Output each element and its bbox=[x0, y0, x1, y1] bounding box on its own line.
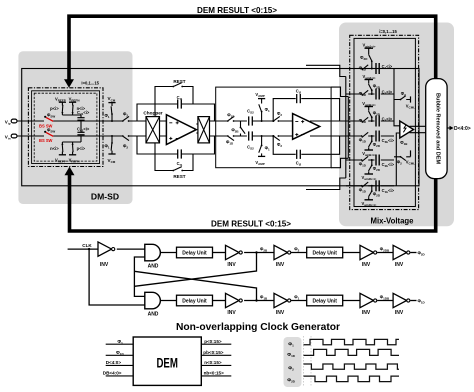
switch phi2d row bbox=[369, 135, 381, 148]
svg-text:DEM RESULT <0:15>: DEM RESULT <0:15> bbox=[197, 6, 277, 15]
wire mix row y=136 bbox=[346, 135, 394, 137]
svg-text:Mix-Voltage: Mix-Voltage bbox=[371, 216, 414, 226]
svg-text:p<0:15>: p<0:15> bbox=[204, 339, 222, 344]
wire stage2 box bbox=[216, 87, 331, 168]
terminal VAMP top bbox=[255, 92, 265, 104]
switch phi2d row bbox=[369, 159, 381, 172]
switch phi2b shorting bbox=[231, 121, 245, 136]
wire Delay1 to INV2 bbox=[213, 252, 226, 254]
svg-text:n<i>: n<i> bbox=[50, 146, 59, 151]
svg-text:BS SW: BS SW bbox=[39, 138, 53, 143]
DM-SD label bbox=[91, 192, 119, 202]
wire Delay2 to INV4 bbox=[343, 252, 360, 254]
wire Delay1b to INV2b bbox=[213, 300, 226, 302]
switch phi1d row bbox=[359, 156, 369, 167]
DM-SD inner dashed box bbox=[32, 91, 100, 164]
switch phi2 to VCML bottom tap bbox=[394, 150, 415, 165]
wire upper rail Vip bbox=[17, 120, 146, 122]
terminal Vain2&lt;i&gt; bbox=[362, 74, 375, 84]
wire Ci2 top loop bbox=[272, 99, 339, 122]
node i=0,1...15 label mix bbox=[379, 29, 397, 34]
capacitor C2 bbox=[376, 89, 393, 100]
wire comparator outputs bbox=[410, 126, 426, 132]
switch phi2 to VCML top tap bbox=[394, 91, 415, 110]
node Vrefp Vrefn bottom labels bbox=[55, 157, 80, 163]
wire mix row y=68.5 bbox=[346, 68, 394, 70]
svg-text:AND: AND bbox=[148, 264, 159, 270]
DM-SD block background bbox=[18, 51, 132, 204]
wire mix input bus plus bbox=[345, 77, 347, 179]
wire Cf1 bottom loop bbox=[137, 136, 215, 154]
wire C41 to C42 bbox=[80, 122, 82, 133]
inverter INV1 bbox=[98, 242, 115, 268]
DM-SD innermost dashed box bbox=[34, 93, 97, 161]
wire REST top loop bbox=[155, 87, 193, 122]
DM-SD dash-dot box bbox=[28, 88, 103, 167]
wire DEM result feedback bus bbox=[69, 16, 436, 231]
wire DEM output nb<0:15> bbox=[201, 371, 231, 376]
capacitor Cf1 top bbox=[177, 95, 183, 109]
svg-text:n<0:15>: n<0:15> bbox=[204, 360, 222, 365]
svg-text:i=0,1...15: i=0,1...15 bbox=[81, 80, 99, 85]
wire INV4b to INV5b node phi1db bbox=[377, 295, 393, 301]
switch phi1d row bbox=[359, 182, 369, 193]
wire DEM output n<0:15> bbox=[201, 360, 231, 365]
comparator U3 bbox=[400, 121, 414, 146]
node DEM RESULT top label bbox=[197, 6, 277, 15]
waveform phi1 bbox=[304, 339, 400, 344]
terminal Vain2b&lt;i&gt; bbox=[362, 171, 377, 181]
capacitor C41<i> bbox=[77, 110, 90, 120]
wire CLK branch to lower AND bbox=[89, 249, 145, 305]
svg-text:DM-SD: DM-SD bbox=[91, 192, 119, 202]
inverter INV3 bbox=[274, 245, 291, 268]
svg-text:D<4:0>: D<4:0> bbox=[454, 126, 471, 132]
svg-text:DEM RESULT <0:15>: DEM RESULT <0:15> bbox=[211, 220, 291, 229]
wire cross-coupling left vertical bbox=[134, 257, 144, 296]
capacitor Cf1 bottom bbox=[177, 149, 183, 166]
terminal VCM bottom bbox=[108, 151, 116, 164]
wire DEM input phi1 bbox=[106, 339, 134, 345]
svg-text:REST: REST bbox=[173, 174, 185, 179]
wire INV2 to INV3 node phi2b bbox=[244, 247, 274, 254]
terminal VCM top bbox=[108, 96, 116, 106]
inverter INV3b bbox=[274, 293, 291, 316]
svg-text:INV: INV bbox=[362, 262, 371, 268]
wire INV5 output phi2d bbox=[410, 251, 425, 257]
inverter INV5 bbox=[393, 245, 410, 268]
terminal Vrefp bottom bbox=[59, 152, 66, 155]
svg-text:DEM: DEM bbox=[156, 354, 178, 370]
switch phi2 series lower rail stage2 bbox=[273, 135, 283, 148]
wire stage2 to mix top A bbox=[306, 65, 346, 76]
wire REST bottom loop bbox=[155, 136, 193, 171]
wire DEM input phi1d bbox=[106, 350, 134, 356]
inverter INV2 bbox=[226, 245, 243, 268]
node waveform labels bbox=[287, 342, 295, 384]
switch REST bottom bbox=[172, 167, 185, 179]
node arrow into DM-SD bottom bbox=[65, 167, 75, 176]
wire INV5b output phi1d bbox=[410, 299, 425, 305]
waveform phi2d bbox=[304, 376, 400, 382]
wire mix row y=121 bbox=[346, 120, 394, 122]
svg-text:INV: INV bbox=[227, 310, 236, 316]
waveform phi2 bbox=[304, 364, 400, 369]
wire top reference junction bbox=[62, 115, 81, 118]
wire cross feedback bottom-to-top bbox=[134, 253, 256, 287]
svg-text:INV: INV bbox=[276, 310, 285, 316]
wire stage1 rails bbox=[160, 121, 247, 136]
svg-text:INV: INV bbox=[276, 262, 285, 268]
terminal VainB&lt;i&gt; bbox=[362, 101, 376, 111]
switch phi1 to VCM top bbox=[104, 106, 115, 122]
switch phi1d series lower rail stage2 bbox=[226, 135, 235, 146]
node DEM RESULT bottom label bbox=[211, 220, 291, 229]
wire AND2 to Delay1b bbox=[160, 300, 176, 302]
wire Delay2b to INV4b bbox=[343, 300, 360, 302]
wire INV3 to Delay2 node phi2 bbox=[291, 247, 307, 253]
capacitor C3 bbox=[376, 116, 393, 127]
switch phi2 series upper rail stage2 bbox=[273, 111, 283, 122]
switch phi2d row bbox=[369, 111, 381, 123]
switch BS SW lower (bootstrap) bbox=[39, 128, 55, 143]
wire DEM input D<4:0> bbox=[106, 360, 134, 365]
wire Cf1 top loop bbox=[137, 104, 215, 121]
capacitor Ci2 bottom bbox=[296, 150, 302, 167]
wire INV3b to Delay2b node phi1 bbox=[291, 295, 307, 301]
inverter INV5b bbox=[393, 293, 410, 316]
waveform label panel bbox=[284, 337, 302, 387]
gate AND1 bbox=[145, 244, 161, 269]
wire stage2 to mix bottom C bbox=[331, 158, 348, 167]
capacitor C3b bbox=[376, 131, 395, 145]
Non-overlapping Clock Generator title bbox=[176, 322, 340, 333]
waveform phi1d bbox=[304, 349, 400, 355]
delay unit top2 bbox=[307, 247, 343, 258]
wire DEM input DB<4:0> bbox=[103, 371, 133, 376]
terminal Vrefp top bbox=[59, 102, 66, 105]
svg-text:INV: INV bbox=[100, 262, 109, 268]
DEM block bbox=[133, 337, 201, 385]
svg-text:DB<4:0>: DB<4:0> bbox=[103, 371, 122, 376]
terminal Vrefn top bbox=[69, 102, 76, 105]
wire mix input bus minus bbox=[347, 97, 349, 159]
switch phi1 to VAMP top bbox=[257, 104, 270, 122]
wire waveform guide lines bbox=[304, 336, 312, 386]
inverter INV4b bbox=[360, 293, 377, 316]
capacitor CS2 upper bbox=[247, 108, 292, 125]
wire cross feedback top-to-bottom bbox=[134, 271, 256, 300]
switch phi1d row bbox=[359, 117, 369, 124]
delay unit bottom2 bbox=[307, 295, 343, 306]
switch phi2 series lower rail bbox=[122, 135, 130, 149]
terminal VAMP bottom bbox=[255, 153, 265, 165]
switch phi1 to VCM bottom bbox=[104, 135, 115, 151]
wire INV4 to INV5 node phi2db bbox=[377, 247, 393, 253]
wire mix row y=160.0 bbox=[346, 159, 394, 161]
wire lower rail Vin bbox=[17, 135, 146, 137]
switch n<i> top bbox=[68, 105, 85, 115]
Mix-Voltage label bbox=[371, 216, 414, 226]
wire CLK input bbox=[68, 243, 98, 250]
svg-text:Chopper: Chopper bbox=[143, 111, 162, 116]
wire DEM output p<0:15> bbox=[201, 339, 231, 344]
switch phi2d row bbox=[360, 54, 373, 69]
wire AND1 to Delay1 bbox=[160, 252, 176, 254]
wire Ci2 bottom loop bbox=[272, 135, 339, 154]
inverter INV2b bbox=[226, 293, 243, 316]
svg-text:INV: INV bbox=[395, 310, 404, 316]
terminal Vain1<i> bbox=[362, 43, 375, 55]
svg-text:INV: INV bbox=[227, 262, 236, 268]
wire mix row y=94.0 bbox=[346, 93, 394, 95]
svg-text:Non-overlapping Clock Generato: Non-overlapping Clock Generator bbox=[176, 322, 340, 333]
switch n<i> bottom bbox=[50, 142, 67, 152]
port Vip bbox=[5, 119, 17, 125]
terminal Vain1b&lt;i&gt; bbox=[362, 197, 377, 207]
Mix inner solid box bbox=[354, 38, 415, 206]
svg-text:pb<0:15>: pb<0:15> bbox=[203, 350, 223, 355]
switch phi2d row bbox=[369, 84, 381, 96]
terminal Vrefn bottom bbox=[69, 152, 76, 155]
capacitor C1 bbox=[376, 63, 393, 74]
wire mix right bus top bbox=[394, 69, 400, 126]
node i=0,1...15 label bbox=[81, 80, 99, 85]
svg-text:INV: INV bbox=[362, 310, 371, 316]
wire INV1 to AND1 bbox=[117, 248, 145, 250]
switch phi1d row bbox=[359, 90, 369, 97]
port D<4:0> output bbox=[447, 126, 471, 133]
wire lower reference junction bbox=[62, 137, 81, 143]
gate AND2 bbox=[145, 292, 161, 317]
svg-text:BS SW: BS SW bbox=[39, 123, 53, 128]
wire INV2b to INV3b node phi1b bbox=[244, 295, 274, 302]
svg-text:INV: INV bbox=[395, 262, 404, 268]
node Vrefp Vrefn top labels bbox=[55, 97, 80, 103]
switch BS SW upper (bootstrap) bbox=[39, 113, 55, 129]
switch phi1 to VAMP bottom bbox=[257, 135, 270, 153]
op-amp A1 bbox=[166, 115, 196, 145]
svg-text:p<i>: p<i> bbox=[77, 146, 86, 151]
wire outer modulator box bbox=[22, 69, 419, 186]
capacitor Ci2 top bbox=[296, 89, 302, 104]
wire DEM output pb<0:15> bbox=[201, 350, 231, 355]
Bubble Removed and DEM block bbox=[426, 79, 447, 179]
terminal VainB&lt;i&gt; bbox=[362, 147, 376, 157]
port Vin bbox=[5, 134, 17, 140]
Mix dash-dot box bbox=[350, 35, 419, 209]
switch p<i> top bbox=[50, 105, 67, 115]
capacitor C1b bbox=[376, 180, 395, 194]
svg-text:Bubble Removed and DEM: Bubble Removed and DEM bbox=[434, 93, 440, 165]
chopper U1 input bbox=[143, 111, 162, 143]
op-amp A2 bbox=[293, 114, 320, 140]
switch phi1d series upper rail stage2 bbox=[227, 112, 235, 122]
switch phi1d row bbox=[359, 132, 369, 143]
svg-text:p<i>: p<i> bbox=[50, 106, 59, 111]
wire stage2 outputs to mix buses bbox=[310, 121, 350, 136]
capacitor CS2 lower bbox=[247, 131, 292, 150]
wire stage2 to mix top B bbox=[331, 87, 348, 96]
wire mix row y=185.8 bbox=[346, 185, 394, 187]
svg-text:CLK: CLK bbox=[82, 243, 92, 248]
capacitor C42<i> bbox=[77, 126, 90, 134]
svg-text:nb<0:15>: nb<0:15> bbox=[204, 371, 224, 376]
switch p<i> bottom bbox=[68, 142, 85, 152]
inverter INV4 bbox=[360, 245, 377, 268]
capacitor C2b bbox=[376, 155, 395, 169]
svg-text:D<4:0>: D<4:0> bbox=[106, 360, 122, 365]
switch phi2d row bbox=[369, 185, 381, 198]
chopper U2 output bbox=[198, 117, 210, 143]
switch phi1d row bbox=[359, 65, 369, 72]
delay unit bottom1 bbox=[177, 295, 213, 306]
svg-text:i=0,1...15: i=0,1...15 bbox=[379, 29, 397, 34]
wire mix right bus bottom bbox=[396, 133, 400, 186]
switch REST top bbox=[172, 79, 185, 87]
switch phi2 series upper rail bbox=[122, 112, 130, 122]
delay unit top1 bbox=[177, 247, 213, 258]
wire stage2 to mix bottom D bbox=[306, 178, 346, 190]
svg-text:AND: AND bbox=[148, 312, 159, 318]
Mix-Voltage block background bbox=[339, 23, 454, 227]
node arrow into DM-SD top bbox=[64, 79, 74, 88]
